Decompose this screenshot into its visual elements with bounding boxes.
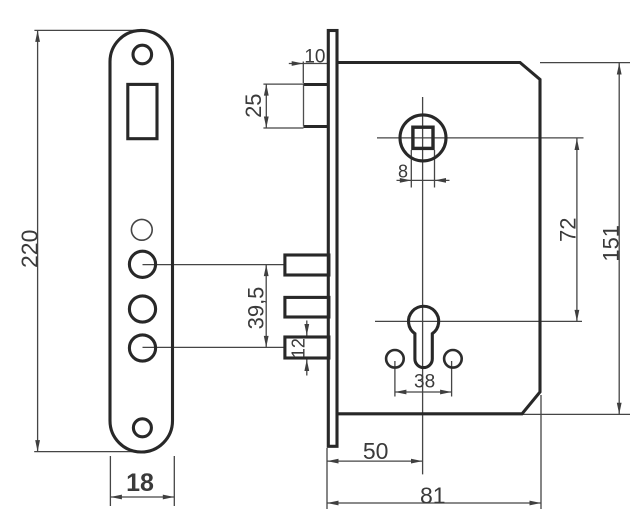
svg-text:12: 12: [288, 338, 308, 358]
svg-text:18: 18: [126, 469, 154, 497]
svg-text:38: 38: [414, 371, 435, 392]
svg-text:220: 220: [17, 230, 43, 268]
svg-text:81: 81: [420, 482, 446, 508]
svg-text:151: 151: [599, 225, 624, 262]
svg-text:25: 25: [241, 93, 266, 117]
svg-text:39,5: 39,5: [244, 287, 269, 330]
svg-text:50: 50: [363, 438, 389, 464]
svg-text:72: 72: [555, 218, 580, 242]
svg-text:10: 10: [304, 46, 325, 67]
svg-text:8: 8: [398, 162, 408, 182]
